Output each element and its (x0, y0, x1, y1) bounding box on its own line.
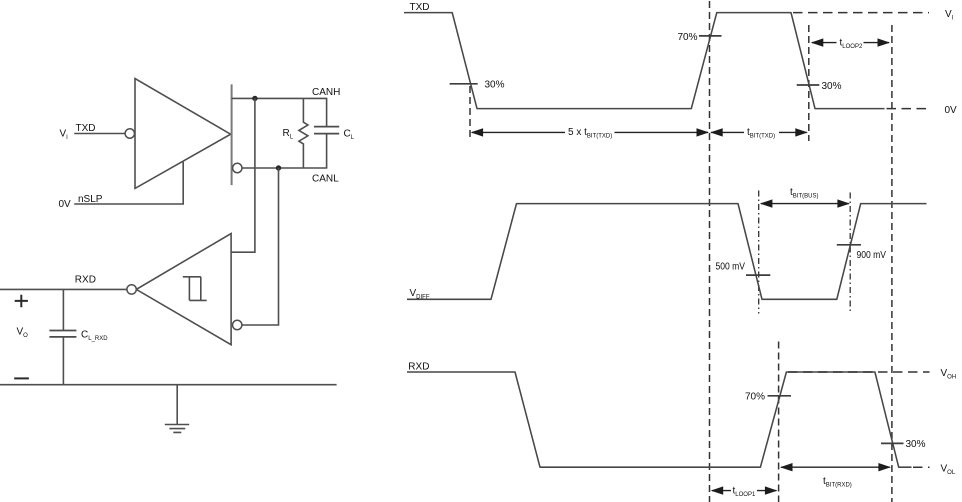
wire TXD input (74, 133, 125, 135)
svg-text:RXD: RXD (75, 275, 96, 286)
svg-text:30%: 30% (485, 79, 505, 90)
arrow tLOOP2 (811, 38, 890, 46)
tick 70% rise (699, 35, 722, 37)
tick 900mV (837, 244, 861, 246)
svg-text:900 mV: 900 mV (857, 250, 887, 261)
svg-text:500 mV: 500 mV (716, 261, 746, 272)
wire RXD output (0, 288, 127, 290)
svg-text:RXD: RXD (408, 361, 429, 372)
capacitor CL (326, 98, 328, 168)
wire V_OH dashed level (788, 371, 930, 373)
tick 30% first fall (450, 83, 478, 85)
svg-text:70%: 70% (678, 32, 698, 43)
guide dashed vertical 3 (891, 25, 893, 502)
wire nSLP (74, 162, 183, 204)
guide dashed vertical 1 (709, 1, 711, 502)
svg-text:CANH: CANH (312, 87, 340, 98)
svg-text:CANL: CANL (312, 174, 339, 185)
svg-text:TXD: TXD (76, 123, 96, 134)
op-amp U2 receiver triangle (136, 234, 231, 345)
arrow tBIT(BUS) (760, 199, 850, 207)
tick 70% RXD (768, 395, 792, 397)
svg-text:30%: 30% (906, 439, 926, 450)
tick 30% RXD (881, 442, 904, 444)
wire 0V dashed level (887, 108, 930, 110)
wire CANL to receiver input (242, 168, 279, 325)
svg-text:30%: 30% (822, 81, 842, 92)
wire V_OL dashed level (913, 466, 930, 468)
guide dashed vertical 2 (808, 25, 810, 141)
wire VDIFF waveform (407, 204, 927, 300)
output bubble RXD (127, 285, 136, 294)
minus sign (14, 377, 29, 379)
output bubble CANL (233, 163, 242, 172)
ground (165, 385, 189, 433)
resistor RL (299, 98, 308, 168)
capacitor CL_RXD (62, 289, 64, 384)
node CANH junction (252, 96, 257, 101)
arrow tBIT(RXD) (780, 463, 891, 471)
arrow tBIT(TXD) (710, 128, 808, 136)
hysteresis symbol (183, 277, 207, 301)
arrow 5 x tBIT(TXD) (471, 128, 709, 136)
svg-text:TXD: TXD (410, 2, 430, 13)
guide dashed vertical 4 (778, 342, 780, 502)
svg-text:70%: 70% (745, 391, 765, 402)
node CANL junction (276, 165, 281, 170)
tick 500mV (746, 274, 770, 276)
wire RXD waveform (407, 372, 912, 467)
wire TXD waveform (404, 13, 885, 109)
wire CANH to receiver input (231, 98, 255, 252)
wire ground rail (0, 384, 337, 386)
op-amp U1 driver triangle (135, 79, 231, 189)
wire CANH (232, 97, 328, 99)
wire CANL (242, 167, 327, 169)
wire V_I dashed level (793, 12, 929, 14)
guide dash-dot vertical 5 (758, 191, 760, 314)
tick 30% second fall (797, 84, 820, 86)
svg-text:0V: 0V (59, 199, 72, 210)
arrow tLOOP1 (711, 486, 778, 494)
bus bar (231, 84, 233, 185)
input bubble receiver low (233, 320, 242, 329)
svg-text:0V: 0V (945, 105, 958, 116)
guide short dashed vertical at 30% (469, 86, 471, 141)
plus sign (15, 295, 28, 308)
guide dash-dot vertical 6 (849, 193, 851, 312)
input bubble driver (125, 129, 134, 138)
